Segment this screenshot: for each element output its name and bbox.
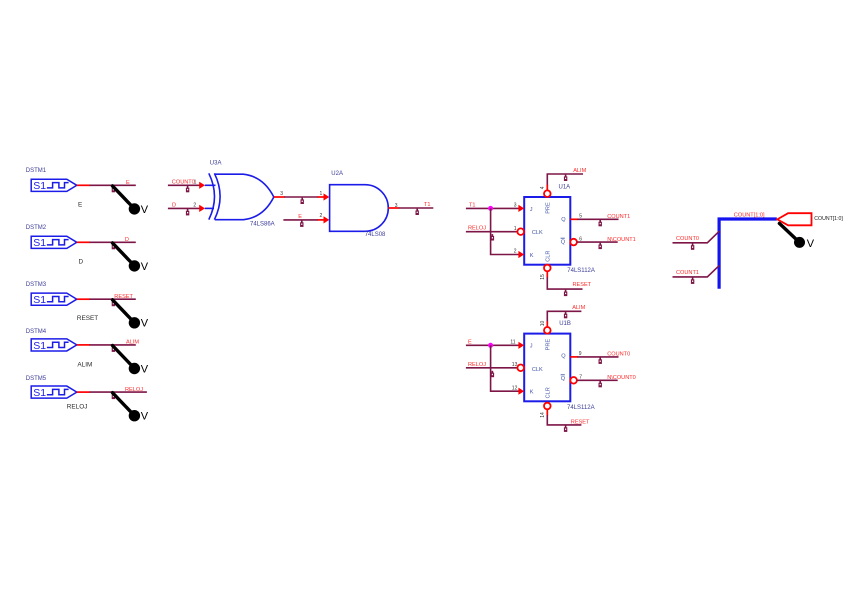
svg-text:3: 3 <box>280 191 283 197</box>
svg-text:PRE: PRE <box>546 339 552 351</box>
svg-text:ALIM: ALIM <box>572 305 585 311</box>
svg-text:U2A: U2A <box>331 171 343 177</box>
junction T1 <box>488 206 493 211</box>
svg-text:D: D <box>172 203 176 209</box>
svg-text:U3A: U3A <box>210 161 222 167</box>
wire COUNT0 <box>577 356 618 358</box>
bubble CLK (U1B pin 13) <box>517 365 524 372</box>
svg-text:RELOJ: RELOJ <box>468 362 486 368</box>
wire E to U2A pin 2 <box>283 219 318 221</box>
svg-text:RELOJ: RELOJ <box>468 226 486 232</box>
svg-text:ALIM: ALIM <box>126 340 139 346</box>
wire N\COUNT0 <box>577 379 618 381</box>
input arrow U2A pin 2 <box>324 216 330 223</box>
svg-text:1: 1 <box>514 226 517 232</box>
svg-text:74LS08: 74LS08 <box>365 232 386 238</box>
svg-text:COUNT[1:0]: COUNT[1:0] <box>814 216 843 222</box>
net flag N1 <box>301 198 304 204</box>
pin lead U3A pin 2 <box>205 207 214 209</box>
svg-text:E: E <box>468 339 472 345</box>
stimulus DSTM5 <box>31 386 77 399</box>
wire E to U1B pin 11 <box>466 344 519 346</box>
net flag COUNT0 <box>186 186 189 192</box>
svg-text:2: 2 <box>193 203 196 209</box>
svg-text:Q: Q <box>561 217 566 223</box>
svg-text:7: 7 <box>579 375 582 381</box>
net flag D <box>186 209 189 215</box>
svg-text:14: 14 <box>540 412 546 418</box>
stimulus DSTM2 <box>31 236 77 249</box>
output stub U3A pin 3 <box>274 196 285 198</box>
svg-text:1: 1 <box>194 179 197 185</box>
svg-text:J: J <box>530 207 533 213</box>
svg-text:D: D <box>79 259 84 266</box>
net flag branch (U1A) <box>491 234 494 240</box>
wire U3A.3 to U2A.1 <box>284 196 318 198</box>
red stub CLR (U1B) <box>546 409 548 415</box>
svg-text:3: 3 <box>395 203 398 209</box>
wire RESET (DSTM3 red stub) <box>77 298 90 300</box>
svg-text:RESET: RESET <box>114 294 133 300</box>
JK flip-flop U1A 74LS112A body <box>524 197 570 265</box>
net flag branch (U1B) <box>491 371 494 377</box>
input arrow U2A pin 1 <box>324 193 330 200</box>
input arrow U1B pin 12 (K) <box>518 388 524 395</box>
wire ALIM vertical (U1A) <box>547 174 583 185</box>
net flag COUNT1 (bus side) <box>691 278 694 284</box>
net flag RELOJ <box>112 393 115 399</box>
svg-text:COUNT0: COUNT0 <box>676 236 699 242</box>
red stub PRE (U1A) <box>546 184 548 190</box>
svg-text:RELOJ: RELOJ <box>125 387 143 393</box>
bubble Qbar (U1B pin 7) <box>570 377 577 384</box>
wire branch E to K <box>491 345 519 391</box>
pin lead U3A pin 1 <box>205 184 216 186</box>
svg-text:N\COUNT0: N\COUNT0 <box>607 375 636 381</box>
bubble CLR (U1A pin 15) <box>544 265 551 272</box>
probe V on bus <box>779 223 814 249</box>
bus COUNT[1:0] <box>719 219 777 289</box>
svg-text:K: K <box>530 253 534 259</box>
svg-text:74LS112A: 74LS112A <box>567 268 595 274</box>
svg-text:12: 12 <box>512 385 518 391</box>
overline Qbar (U1B) <box>561 374 565 376</box>
svg-text:D: D <box>125 237 129 243</box>
input arrow U1A pin 2 (K) <box>518 251 524 258</box>
svg-text:DSTM5: DSTM5 <box>26 376 47 382</box>
wire COUNT1 (bus side) <box>673 265 720 277</box>
bubble Qbar (U1A pin 6) <box>570 239 577 246</box>
net flag COUNT0 <box>599 358 602 364</box>
XOR gate U3A 74LS86A body <box>209 173 274 219</box>
wire ALIM <box>90 344 136 346</box>
AND gate U2A 74LS08 body <box>330 185 389 232</box>
svg-text:RELOJ: RELOJ <box>67 404 88 411</box>
wire COUNT0 (bus side) <box>673 231 720 243</box>
net flag T1 <box>416 209 419 215</box>
junction E <box>488 343 493 348</box>
stimulus DSTM3 <box>31 293 77 306</box>
svg-text:V: V <box>807 238 815 250</box>
net flag ALIM (U1B) <box>564 312 567 318</box>
wire RESET (U1B) <box>547 415 581 425</box>
input arrow U1B pin 11 (J) <box>518 342 524 349</box>
red stub into U2A pin 1 <box>317 196 324 198</box>
wire RELOJ (DSTM5 red stub) <box>77 391 90 393</box>
svg-text:RESET: RESET <box>571 420 590 426</box>
svg-text:10: 10 <box>540 321 546 327</box>
svg-text:74LS86A: 74LS86A <box>250 222 275 228</box>
svg-text:U1A: U1A <box>559 185 571 191</box>
probe V on RELOJ <box>113 393 149 423</box>
svg-text:6: 6 <box>579 236 582 242</box>
svg-text:DSTM2: DSTM2 <box>26 225 47 231</box>
net flag RESET (U1A) <box>564 290 567 296</box>
svg-text:COUNT0: COUNT0 <box>607 352 630 358</box>
svg-text:DSTM1: DSTM1 <box>26 168 47 174</box>
svg-text:E: E <box>126 180 130 186</box>
input arrow U1A pin 3 (J) <box>518 205 524 212</box>
red stub CLR (U1A) <box>546 271 548 277</box>
wire RESET (U1A) <box>547 277 582 289</box>
svg-text:2: 2 <box>320 213 323 219</box>
wire T1 <box>399 207 434 209</box>
net flag RESET <box>112 300 115 306</box>
probe V on ALIM <box>113 346 149 376</box>
bubble PRE (U1A pin 4) <box>544 190 551 197</box>
svg-text:Q: Q <box>561 376 566 382</box>
svg-text:RESET: RESET <box>77 315 98 322</box>
svg-text:COUNT1: COUNT1 <box>607 214 630 220</box>
svg-text:K: K <box>530 390 534 396</box>
net flag ALIM (U1A) <box>564 175 567 181</box>
svg-text:CLR: CLR <box>546 251 552 262</box>
input arrow U3A pin 2 <box>199 205 205 212</box>
net flag N\COUNT0 <box>599 381 602 387</box>
probe V on E <box>113 186 149 216</box>
svg-text:Q: Q <box>561 353 566 359</box>
output stub Q (U1B pin 9) <box>570 356 578 358</box>
svg-text:13: 13 <box>512 362 518 368</box>
bubble CLK (U1A pin 1) <box>517 228 524 235</box>
JK flip-flop U1B 74LS112A body <box>524 334 570 402</box>
wire RELOJ to U1B pin 13 <box>466 367 517 369</box>
svg-text:DSTM3: DSTM3 <box>26 282 47 288</box>
svg-text:74LS112A: 74LS112A <box>567 405 595 411</box>
svg-text:ALIM: ALIM <box>573 168 586 174</box>
svg-text:ALIM: ALIM <box>77 362 92 369</box>
output stub Q (U1A pin 5) <box>570 218 578 220</box>
svg-text:PRE: PRE <box>546 202 552 214</box>
svg-text:4: 4 <box>540 186 546 189</box>
net flag COUNT0 (bus side) <box>691 243 694 249</box>
wire N\COUNT1 <box>577 241 618 243</box>
svg-text:E: E <box>78 202 82 209</box>
net flag COUNT1 <box>599 220 602 226</box>
net flag ALIM <box>112 346 115 352</box>
net flag RESET (U1B) <box>564 426 567 432</box>
svg-text:11: 11 <box>510 339 515 345</box>
input arrow U3A pin 1 <box>199 182 205 189</box>
wire RELOJ to U1A pin 1 <box>466 231 517 233</box>
net flag E <box>112 186 115 192</box>
net flag E <box>300 221 303 227</box>
svg-text:CLR: CLR <box>546 387 552 398</box>
svg-text:T1: T1 <box>469 202 476 208</box>
svg-text:COUNT0: COUNT0 <box>172 180 195 186</box>
wire ALIM vertical (U1B) <box>547 311 581 321</box>
net flag N\COUNT1 <box>599 243 602 249</box>
red stub into U2A pin 2 <box>317 219 324 221</box>
svg-text:9: 9 <box>579 351 582 357</box>
svg-text:2: 2 <box>514 249 517 255</box>
svg-text:N\COUNT1: N\COUNT1 <box>607 237 636 243</box>
svg-text:15: 15 <box>540 274 546 280</box>
wire RELOJ <box>90 391 147 393</box>
svg-text:U1B: U1B <box>559 321 571 327</box>
svg-text:3: 3 <box>514 203 517 209</box>
net flag D <box>112 243 115 249</box>
probe V on RESET <box>113 300 149 330</box>
overline Qbar (U1A) <box>561 237 565 239</box>
svg-text:J: J <box>530 344 533 350</box>
stimulus DSTM1 <box>31 179 77 192</box>
red stub PRE (U1B) <box>546 321 548 327</box>
svg-text:CLK: CLK <box>532 230 543 236</box>
svg-text:5: 5 <box>579 214 582 220</box>
svg-text:E: E <box>298 214 302 220</box>
wire E (DSTM1 red stub) <box>77 184 90 186</box>
svg-text:Q: Q <box>561 240 566 246</box>
bubble CLR (U1B pin 14) <box>544 403 551 410</box>
wire T1 to U1A pin 3 <box>466 207 519 209</box>
wire D to U3A pin 2 <box>168 207 200 209</box>
wire D <box>90 241 136 243</box>
svg-text:COUNT[1:0]: COUNT[1:0] <box>734 212 765 218</box>
svg-text:T1: T1 <box>424 202 431 208</box>
wire D (DSTM2 red stub) <box>77 241 90 243</box>
svg-text:1: 1 <box>320 191 323 197</box>
output stub U2A pin 3 <box>388 207 399 209</box>
wire ALIM (DSTM4 red stub) <box>77 344 90 346</box>
svg-text:COUNT1: COUNT1 <box>676 270 699 276</box>
svg-text:RESET: RESET <box>573 282 592 288</box>
wire COUNT1 <box>577 218 618 220</box>
off-page connector COUNT[1:0] <box>777 213 811 225</box>
svg-text:DSTM4: DSTM4 <box>26 329 47 335</box>
bubble PRE (U1B pin 10) <box>544 327 551 334</box>
wire COUNT0 to U3A pin 1 <box>168 184 200 186</box>
wire branch T1 to K <box>491 208 519 254</box>
svg-text:CLK: CLK <box>532 367 543 373</box>
stimulus DSTM4 <box>31 339 77 352</box>
wire E <box>90 184 136 186</box>
probe V on D <box>113 243 149 273</box>
wire RESET <box>90 298 136 300</box>
